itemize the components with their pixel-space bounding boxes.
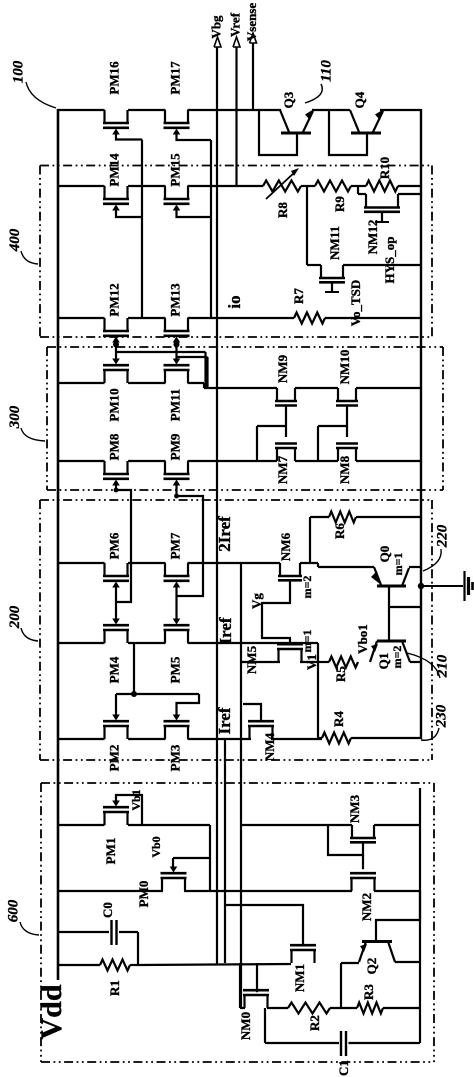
- svg-text:Q2: Q2: [364, 958, 379, 975]
- svg-text:PM14: PM14: [106, 153, 121, 187]
- PM8 gate wire: [116, 484, 131, 602]
- svg-text:210: 210: [434, 654, 450, 678]
- long bias vertical (gate bus to NM0 row): [240, 563, 242, 1008]
- transistor NM9: [276, 388, 278, 401]
- right wire of 600 (NM3 source bus): [419, 788, 421, 1043]
- NM1 gate wire: [225, 905, 303, 945]
- PM1 gate wire (diode): [116, 795, 142, 825]
- svg-text:Vo_TSD: Vo_TSD: [348, 280, 363, 326]
- PM0 gate wire: [173, 857, 210, 859]
- resistor R5: [318, 661, 329, 663]
- NM3 drain row wire: [241, 824, 352, 826]
- svg-text:Iref: Iref: [216, 617, 235, 644]
- transistor Q2 BJT: [362, 940, 392, 943]
- svg-text:NM10: NM10: [337, 350, 352, 385]
- NM0 row riser: [239, 963, 241, 1008]
- R6 riser: [309, 517, 311, 563]
- NM7 gate loop: [257, 425, 286, 427]
- wire R7 to ground rail: [325, 317, 421, 319]
- svg-text:PM5: PM5: [167, 656, 182, 683]
- V1 vertical wire: [317, 643, 319, 738]
- svg-text:HYS_op: HYS_op: [382, 237, 397, 284]
- transistor PM11 (mirrored): [164, 370, 166, 383]
- Q2 emitter wire: [341, 962, 359, 964]
- capacitor C0: [58, 931, 109, 933]
- PM16 gate wire: [116, 131, 142, 140]
- svg-text:Vdd: Vdd: [35, 984, 68, 1039]
- svg-text:m=2: m=2: [390, 646, 404, 669]
- svg-text:400: 400: [7, 228, 23, 252]
- svg-text:io: io: [225, 295, 244, 308]
- resistor R4: [322, 733, 351, 744]
- PM12 gate lead with junction dot: [115, 341, 117, 361]
- wire R10 to ground rail: [398, 185, 421, 187]
- svg-text:NM3: NM3: [347, 794, 362, 823]
- PM14 gate wire: [116, 208, 142, 217]
- resistor R6: [310, 516, 329, 518]
- svg-text:100: 100: [10, 60, 26, 83]
- block 300 border: [47, 346, 443, 348]
- transistor PM8: [103, 461, 105, 474]
- svg-text:C1: C1: [336, 1060, 351, 1076]
- svg-text:m=1: m=1: [391, 553, 405, 576]
- PM10/PM11 gate bus wires: [116, 351, 206, 353]
- svg-text:PM0: PM0: [136, 881, 151, 908]
- transistor NM2 (mirrored): [350, 878, 352, 891]
- svg-text:Q4: Q4: [352, 91, 367, 108]
- NM5 source row wire: [241, 661, 280, 663]
- svg-text:NM12: NM12: [365, 220, 380, 255]
- svg-text:PM15: PM15: [167, 153, 182, 187]
- Q0/Q1 base vertical and ground tie: [388, 586, 390, 641]
- svg-text:PM13: PM13: [167, 283, 182, 317]
- PM2 gate lead: [115, 694, 117, 715]
- resistor R1: [58, 964, 100, 966]
- ground rail (right vertical): [420, 109, 422, 739]
- Vg loop (NM6/NM5 gates): [262, 580, 290, 645]
- svg-text:NM5: NM5: [244, 645, 259, 674]
- top row wire (Vdd to Q3/Q4 feed): [57, 109, 105, 111]
- svg-text:Iref: Iref: [215, 707, 234, 734]
- svg-text:PM12: PM12: [106, 283, 121, 316]
- svg-text:R5: R5: [333, 666, 348, 682]
- PM2/PM3 mirror tap vertical with dot: [133, 643, 135, 694]
- transistor NM5 (mirrored): [277, 649, 279, 662]
- svg-text:PM9: PM9: [167, 433, 182, 460]
- Vref line: [235, 47, 237, 186]
- svg-text:m=2: m=2: [300, 576, 314, 599]
- transistor PM3 (mirrored): [164, 726, 166, 739]
- NM8 gate loop: [318, 425, 347, 427]
- NM9/NM10 drain row wire: [204, 387, 277, 389]
- transistor Q4 (diode-connected BJT): [329, 110, 367, 155]
- NM0 drain row wire: [240, 1007, 245, 1009]
- svg-text:Vbo1: Vbo1: [355, 624, 370, 654]
- svg-text:NM6: NM6: [278, 532, 293, 561]
- svg-text:NM9: NM9: [275, 354, 290, 383]
- svg-text:220: 220: [434, 524, 450, 548]
- svg-text:NM4: NM4: [262, 732, 277, 761]
- transistor PM17: [164, 110, 166, 123]
- svg-text:300: 300: [7, 405, 23, 429]
- row 8 wire: [57, 738, 105, 740]
- resistor R8 (variable): [263, 181, 301, 192]
- svg-text:Vref: Vref: [227, 12, 242, 37]
- svg-text:2Iref: 2Iref: [215, 516, 234, 552]
- svg-text:PM10: PM10: [106, 388, 121, 421]
- PM13 gate lead with junction dot: [175, 341, 177, 361]
- transistor PM1 (mirrored): [103, 812, 105, 825]
- svg-text:Vb1: Vb1: [129, 789, 143, 810]
- Q2 emitter drop vertical: [340, 963, 342, 1008]
- svg-text:R2: R2: [307, 1015, 322, 1031]
- transistor NM11: [320, 265, 322, 278]
- svg-text:PM8: PM8: [106, 433, 121, 460]
- ground junction dot: [418, 583, 424, 589]
- transistor NM1 (mirrored): [290, 950, 292, 963]
- svg-text:R3: R3: [361, 984, 376, 1000]
- transistor NM3: [351, 825, 353, 838]
- svg-text:PM1: PM1: [103, 838, 118, 865]
- svg-text:PM11: PM11: [167, 389, 182, 422]
- block 600 border: [41, 782, 434, 784]
- svg-text:NM2: NM2: [359, 893, 374, 921]
- block 200 border: [40, 499, 432, 501]
- R1/C0 node wire to NM1: [138, 964, 291, 965]
- svg-text:Vg: Vg: [249, 593, 264, 609]
- transistor NM4 (mirrored): [248, 726, 250, 739]
- NM11 row wire: [307, 264, 321, 266]
- svg-text:Q3: Q3: [281, 91, 296, 108]
- transistor PM12: [103, 318, 105, 331]
- resistor R3: [357, 1003, 383, 1014]
- NM9-NM7 gate vertical: [285, 406, 287, 438]
- svg-text:m=1: m=1: [300, 630, 314, 653]
- svg-text:R8: R8: [275, 202, 290, 218]
- svg-text:PM7: PM7: [167, 532, 182, 559]
- NM2 source path to Q2: [376, 891, 420, 941]
- svg-text:NM8: NM8: [337, 455, 352, 484]
- svg-text:R1: R1: [107, 980, 122, 996]
- row 4 wire (PM10/PM11 source row): [57, 382, 105, 384]
- transistor PM16: [103, 110, 105, 123]
- row 7 wire (Iref row): [57, 642, 105, 644]
- row 6 wire: [57, 562, 105, 564]
- resistor R9: [315, 181, 351, 192]
- svg-text:200: 200: [7, 605, 23, 629]
- gate bus B vertical (PM17/PM15 gates): [210, 140, 212, 318]
- PM6/PM4 gate vertical: [115, 586, 117, 619]
- row 5 wire: [57, 460, 105, 462]
- capacitor C1: [264, 1008, 266, 1043]
- PM15 gate wire: [177, 208, 212, 217]
- transistor PM15: [164, 186, 166, 199]
- svg-text:NM0: NM0: [238, 1012, 253, 1040]
- svg-text:R9: R9: [332, 196, 347, 212]
- Vb0 vertical: [209, 825, 211, 891]
- transistor PM7: [164, 563, 166, 576]
- svg-text:PM16: PM16: [106, 61, 121, 95]
- svg-text:Vb0: Vb0: [149, 836, 163, 857]
- svg-text:V1: V1: [304, 654, 319, 670]
- svg-text:R6: R6: [332, 523, 347, 539]
- transistor NM10: [337, 388, 339, 401]
- Vbg line (long vertical to io row): [216, 47, 218, 964]
- transistor Q0 BJT: [317, 563, 319, 567]
- wire R9-R10: [351, 185, 366, 187]
- svg-text:C0: C0: [100, 902, 115, 918]
- svg-text:NM1: NM1: [292, 964, 307, 992]
- resistor R10: [366, 181, 398, 192]
- mid vertical PM0 drain bus: [224, 739, 226, 963]
- transistor Q1 BJT (mirrored): [377, 640, 406, 643]
- ground symbol: [421, 585, 463, 587]
- PM1 drain row wire: [57, 824, 105, 826]
- PM17 gate wire: [177, 131, 212, 140]
- transistor PM9: [164, 461, 166, 474]
- PM7/PM5 gate vertical: [175, 586, 177, 619]
- PM2/PM3 gate bus wire: [116, 693, 199, 695]
- wire R8/R9 tap down to NM11: [306, 186, 308, 265]
- svg-text:R4: R4: [331, 711, 346, 727]
- Vsense line: [252, 43, 254, 110]
- row 3 wire (io): [57, 317, 105, 319]
- svg-text:Vbg: Vbg: [208, 15, 223, 39]
- transistor NM7 (mirrored): [276, 448, 278, 461]
- transistor NM12 (bypass of R10): [357, 186, 359, 194]
- transistor PM0 (mirrored): [161, 878, 163, 891]
- svg-text:R10: R10: [377, 157, 392, 179]
- transistor PM13: [164, 318, 166, 331]
- svg-text:R7: R7: [291, 288, 306, 304]
- transistor NM0 (mirrored): [243, 995, 245, 1008]
- svg-text:Q1: Q1: [376, 653, 391, 670]
- transistor PM14: [103, 186, 105, 199]
- NM0 gate lead: [256, 963, 258, 992]
- NM3 diode loop and NM2 gate tie: [328, 825, 363, 855]
- transistor PM2 (mirrored): [103, 726, 105, 739]
- row 2 wire: [57, 185, 105, 187]
- svg-text:NM11: NM11: [327, 226, 342, 260]
- svg-text:Q0: Q0: [377, 546, 392, 563]
- NM10-NM8 gate vertical: [346, 406, 348, 438]
- PM9 gate wire: [177, 484, 204, 596]
- svg-text:230: 230: [433, 704, 449, 728]
- svg-text:110: 110: [318, 60, 334, 82]
- transistor NM8 (mirrored): [337, 448, 339, 461]
- transistor PM4 (mirrored): [103, 630, 105, 643]
- wire R8-R9 with tap: [301, 185, 315, 187]
- transistor PM10 (mirrored): [103, 370, 105, 383]
- Vdd rail (left vertical supply line): [57, 109, 60, 980]
- transistor PM6: [103, 563, 105, 576]
- PM3 gate wire: [177, 694, 200, 715]
- svg-text:PM3: PM3: [167, 744, 182, 771]
- resistor R2: [288, 1003, 330, 1014]
- svg-text:PM2: PM2: [106, 745, 121, 772]
- svg-text:600: 600: [5, 899, 21, 922]
- transistor Q3 (diode-connected BJT): [259, 110, 297, 155]
- block 400 border: [40, 165, 432, 167]
- svg-text:PM6: PM6: [106, 532, 121, 559]
- drop wires to NM9 row: [203, 383, 205, 388]
- resistor R7: [294, 313, 325, 324]
- svg-text:PM4: PM4: [106, 656, 121, 683]
- NM4 gate wire: [243, 704, 261, 721]
- transistor PM5 (mirrored): [164, 630, 166, 643]
- gate bus A vertical (PM16/PM14 gates): [141, 140, 143, 319]
- transistor NM6: [279, 563, 281, 576]
- PM0 drain row wire: [57, 890, 163, 892]
- svg-text:NM7: NM7: [275, 455, 290, 484]
- svg-text:PM17: PM17: [167, 61, 182, 95]
